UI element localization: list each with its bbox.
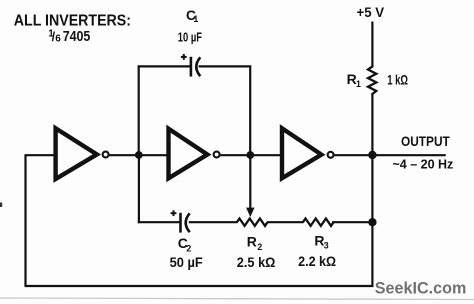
R2 wiper arrowhead xyxy=(246,208,254,217)
resistor R2 (horizontal zigzag, pot) xyxy=(237,219,268,226)
junction dot R3 / right vertical xyxy=(368,218,376,226)
svg-text:2: 2 xyxy=(186,244,191,254)
wire: R3 to right vertical xyxy=(332,221,372,223)
scan artifact: faint bottom rule xyxy=(0,298,474,300)
wire: +5V supply vertical above R1 xyxy=(371,22,373,67)
label: R3 xyxy=(314,233,328,251)
svg-text:7405: 7405 xyxy=(63,29,91,45)
svg-text:6: 6 xyxy=(55,34,61,45)
svg-text:2: 2 xyxy=(257,242,262,252)
svg-text:2.5 kΩ: 2.5 kΩ xyxy=(237,255,276,271)
resistor R1 (vertical zigzag) xyxy=(368,66,376,96)
wire: U1c output to OUTPUT terminal xyxy=(334,154,446,156)
svg-text:3: 3 xyxy=(324,241,329,251)
svg-text:~4 – 20 Hz: ~4 – 20 Hz xyxy=(393,156,454,171)
inverter U1c xyxy=(282,128,334,178)
label: 1/6 7405 xyxy=(48,29,90,45)
svg-text:2.2 kΩ: 2.2 kΩ xyxy=(298,254,336,270)
wire: node A down leg to C2 path xyxy=(138,155,140,223)
label: R1 xyxy=(347,71,361,89)
wire: input to inverter U1a xyxy=(25,154,56,156)
wire: R2 to R3 xyxy=(267,221,304,223)
wire: C1 top left horizontal xyxy=(138,65,190,67)
wire: C2 to R2 xyxy=(189,221,238,223)
label: C1 xyxy=(186,8,198,24)
svg-text:1: 1 xyxy=(193,14,198,24)
wire: C1 left leg up from node A xyxy=(138,66,140,155)
output node junction dot xyxy=(368,151,376,159)
inverter U1a xyxy=(56,128,109,179)
C2 plus sign xyxy=(171,210,177,216)
wire: feedback left vertical xyxy=(24,155,26,286)
node A junction dot xyxy=(135,151,143,159)
node B junction dot xyxy=(246,151,254,159)
wire: R2 wiper shaft from node B xyxy=(249,155,251,210)
svg-text:R: R xyxy=(247,233,257,249)
svg-text:OUTPUT: OUTPUT xyxy=(401,134,450,149)
svg-text:ALL INVERTERS:: ALL INVERTERS: xyxy=(14,13,131,30)
wire: C1 top right horizontal xyxy=(199,65,252,67)
svg-text:+5 V: +5 V xyxy=(357,5,385,21)
wire: U1b output to U1c input, node B xyxy=(220,154,281,156)
svg-text:1 kΩ: 1 kΩ xyxy=(387,72,408,88)
capacitor C1 xyxy=(191,57,200,77)
label: R2 xyxy=(247,233,263,252)
svg-text:50 µF: 50 µF xyxy=(170,255,203,270)
inverter U1b xyxy=(169,129,220,179)
wire: right vertical below R1 through output node xyxy=(371,94,373,286)
wire: C1 right leg down to node B xyxy=(249,66,251,155)
C1 plus sign xyxy=(181,54,187,60)
label: C2 xyxy=(178,235,192,254)
wire: bottom path C2 left xyxy=(138,221,180,223)
svg-text:1: 1 xyxy=(356,79,361,89)
wire: bottom feedback horizontal xyxy=(25,285,374,287)
svg-text:SeekIC.com: SeekIC.com xyxy=(375,279,467,297)
svg-text:10 µF: 10 µF xyxy=(178,29,202,44)
scan artifact: left edge mark xyxy=(0,203,2,208)
capacitor C2 xyxy=(181,213,190,233)
wire: U1a output to U1b input, node A xyxy=(109,154,168,156)
resistor R3 (horizontal zigzag) xyxy=(303,219,334,226)
